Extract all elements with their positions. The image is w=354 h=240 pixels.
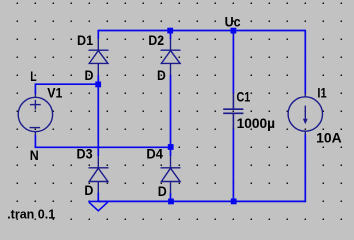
svg-text:D: D — [157, 68, 166, 83]
wire D2 top — [170, 30, 172, 39]
junction node D4 anode to bottom rail — [168, 199, 174, 205]
wire top rail (node Uc) — [98, 30, 305, 32]
current source I1 — [288, 93, 322, 134]
svg-text:D2: D2 — [148, 33, 164, 48]
capacitor C1 — [223, 93, 243, 129]
svg-text:Uc: Uc — [225, 15, 241, 30]
wire N rail — [35, 146, 170, 148]
junction node C1 bottom to rail — [231, 199, 237, 205]
svg-text:D4: D4 — [146, 147, 163, 162]
wire V1 bottom stub — [34, 135, 36, 148]
junction node N to D2/D4 column — [168, 144, 174, 150]
ground — [88, 201, 108, 210]
junction node L (V1+ to D1/D3) — [95, 82, 101, 88]
wire C1 bottom to rail — [232, 129, 234, 201]
svg-text:D1: D1 — [77, 33, 94, 48]
wire D2 anode to N junction to D4 — [170, 75, 172, 157]
svg-text:D3: D3 — [77, 147, 94, 162]
wire Uc node down to C1 — [232, 31, 234, 94]
svg-text:C1: C1 — [237, 90, 251, 105]
wire D1 bottom to node — [97, 75, 99, 85]
voltage source V1 — [18, 94, 52, 135]
wire L horizontal — [35, 83, 98, 85]
svg-text:V1: V1 — [47, 85, 63, 100]
wire V1 top stub — [34, 83, 36, 94]
wire node L down to D3 (crosses N rail) — [97, 84, 99, 156]
diode D2 — [161, 39, 181, 75]
wire I1 bottom stub — [304, 134, 306, 202]
wire bottom rail — [98, 200, 305, 202]
svg-text:D: D — [85, 68, 94, 83]
svg-text:D: D — [158, 184, 167, 199]
svg-text:N: N — [30, 148, 39, 163]
svg-text:.tran 0.1: .tran 0.1 — [7, 206, 56, 221]
wire D1 top — [97, 30, 99, 39]
junction node D2 cathode to top rail — [167, 28, 173, 34]
svg-text:10A: 10A — [316, 130, 342, 145]
diode D4 — [161, 156, 181, 193]
wire I1 top stub — [304, 30, 306, 94]
diode D3 — [89, 156, 109, 193]
svg-text:L: L — [30, 69, 36, 84]
svg-text:I1: I1 — [317, 85, 327, 100]
svg-text:1000µ: 1000µ — [237, 116, 276, 131]
wire D3 anode to ground rail — [97, 193, 99, 202]
junction node Uc (C1 top) — [231, 28, 237, 34]
svg-text:D: D — [84, 183, 93, 198]
diode D1 — [89, 39, 109, 75]
wire D4 anode to bottom rail — [170, 193, 172, 202]
